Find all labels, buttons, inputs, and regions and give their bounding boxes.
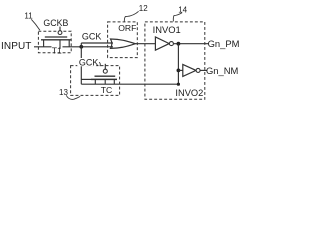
INVO2 output bubble <box>196 68 200 72</box>
svg-text:Gn_NM: Gn_NM <box>206 65 238 76</box>
wire stub junction up to GCK line <box>80 43 82 47</box>
TC body stub <box>104 79 106 84</box>
T1 right drain leg <box>68 40 70 47</box>
wire INVO1 output to Gn_PM <box>174 43 209 45</box>
svg-text:11: 11 <box>24 12 33 21</box>
TC channel <box>91 78 117 80</box>
wire INVO2 output to Gn_NM <box>200 69 206 71</box>
dashed box 12 <box>108 22 138 58</box>
wire INPUT to T1 left leg <box>34 46 52 48</box>
TC gate bubble <box>103 69 107 73</box>
T1 channel <box>41 39 71 41</box>
T1 body stub <box>59 40 61 49</box>
leader line 11 <box>31 19 40 30</box>
junction dot INVO1 output <box>177 42 181 46</box>
transistor TC <box>81 64 117 84</box>
svg-text:GCK: GCK <box>82 32 102 42</box>
dashed box 11 <box>38 31 71 53</box>
svg-text:12: 12 <box>139 4 148 13</box>
transistor TC gate label GCK <box>77 58 100 68</box>
inverter INVO2 <box>183 64 196 76</box>
svg-text:Gn_PM: Gn_PM <box>208 38 240 49</box>
transistor T1 <box>41 27 71 49</box>
svg-text:13: 13 <box>59 88 68 97</box>
TC right leg <box>113 79 115 84</box>
svg-text:INPUT: INPUT <box>1 41 32 52</box>
T1 gate plate <box>45 36 67 38</box>
wire ORF output to INVO1 input <box>135 43 155 45</box>
junction dot INVO2 input <box>177 69 181 73</box>
or-gate ORF <box>111 39 136 48</box>
junction dot node GCK <box>79 45 83 49</box>
leader line 14 <box>173 13 182 22</box>
wire GCK line to ORF upper input <box>81 42 113 44</box>
svg-text:ORF: ORF <box>118 23 136 33</box>
TC left leg <box>94 79 96 84</box>
T1 gate bubble <box>58 31 62 35</box>
TC gate plate <box>95 75 116 77</box>
dashed box 13 <box>71 66 120 96</box>
GCK label tail mark <box>99 62 100 66</box>
inverter INVO1 <box>155 37 169 50</box>
TC source line from riser <box>81 78 91 80</box>
TC gate lead <box>104 64 106 69</box>
wire keeper feedback bottom <box>81 83 178 85</box>
svg-text:T1: T1 <box>52 46 62 56</box>
leader line 12 <box>124 11 138 21</box>
INVO1 output bubble <box>169 42 173 46</box>
T1 gate lead <box>59 27 61 31</box>
leader line 13 <box>66 95 80 99</box>
wire T1 right side to ORF lower input <box>63 46 114 48</box>
wire riser junction down to keeper wire <box>80 47 82 84</box>
svg-text:TC: TC <box>101 85 112 95</box>
T1 left source leg <box>43 40 45 47</box>
svg-text:14: 14 <box>178 5 187 14</box>
svg-text:INVO2: INVO2 <box>175 88 203 98</box>
svg-text:GCKB: GCKB <box>43 18 68 28</box>
svg-text:GCK: GCK <box>79 58 99 68</box>
junction dot feedback corner <box>177 83 180 86</box>
wire stub to INVO2 input <box>178 69 182 71</box>
wire feedback riser INVO1 output down <box>177 44 179 84</box>
dashed box 14 <box>145 22 205 99</box>
svg-text:INVO1: INVO1 <box>153 24 181 35</box>
